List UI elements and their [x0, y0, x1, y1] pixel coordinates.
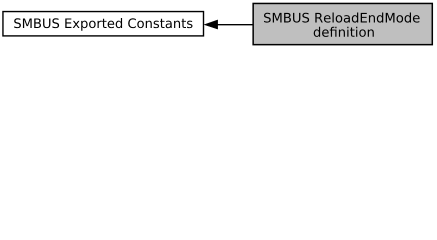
label line 2: definition: [314, 27, 374, 37]
background: [0, 0, 437, 51]
label: SMBUS Exported Constants: [14, 18, 192, 31]
edge wire: [217, 24, 252, 26]
node box: SMBUS ReloadEndMode definition (current node, gray): [253, 3, 432, 44]
arrowhead: [204, 20, 217, 29]
label line 1: SMBUS ReloadEndMode: [264, 12, 420, 22]
node box: SMBUS Exported Constants: [3, 12, 204, 36]
